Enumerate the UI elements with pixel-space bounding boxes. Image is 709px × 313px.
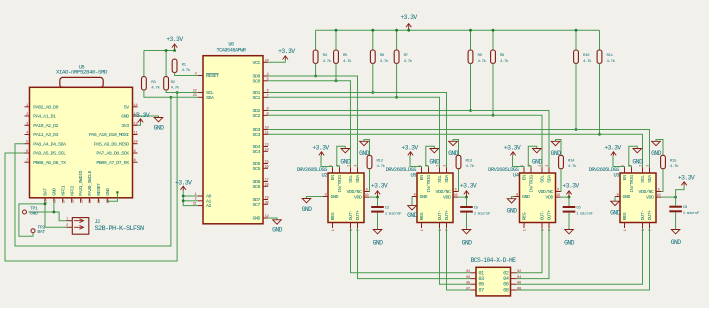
- haptic driver U3 DRV2605LDGS: [589, 167, 656, 222]
- svg-text:PA30_SWCLK: PA30_SWCLK: [87, 170, 93, 195]
- node BAT junction: [44, 203, 47, 206]
- U5 right pins VDD/NC VDD: [436, 188, 458, 200]
- svg-text:PA6_A10_D10_MOSI: PA6_A10_D10_MOSI: [89, 132, 129, 138]
- svg-text:4.7k: 4.7k: [377, 164, 386, 169]
- test point TP1 GND: [23, 206, 38, 217]
- svg-text:GND: GND: [105, 188, 111, 196]
- +3.3V at VDD: [460, 182, 477, 197]
- wire U4 EN to +3.3V: [513, 156, 525, 168]
- wire R6 to bus line: [372, 63, 374, 92]
- U6 left pin 22 SCL: [193, 89, 214, 96]
- svg-text:OUT+: OUT+: [444, 210, 450, 220]
- I2C multiplexer U6 TCA9548APWR: [203, 42, 263, 224]
- svg-text:R13: R13: [466, 160, 473, 164]
- svg-text:3: 3: [355, 165, 359, 167]
- svg-text:SC6: SC6: [253, 184, 261, 190]
- svg-text:4.7k: 4.7k: [670, 164, 679, 169]
- node rail-R5 junction: [335, 29, 338, 32]
- svg-text:1 microF: 1 microF: [576, 211, 593, 216]
- ground at U5 GND: [407, 206, 418, 220]
- wire U5 GND pin to ground: [411, 197, 413, 206]
- ground at U6 GND: [272, 220, 283, 234]
- node A1 junction: [182, 199, 185, 202]
- resistor R4: [313, 50, 332, 64]
- svg-text:GND: GND: [651, 150, 662, 157]
- svg-text:10: 10: [556, 194, 560, 198]
- svg-text:GND: GND: [52, 188, 58, 196]
- wire U5 OUT- to connector pin 05: [440, 228, 471, 284]
- svg-text:REG: REG: [622, 212, 628, 220]
- svg-text:SC0: SC0: [253, 78, 261, 84]
- svg-text:REG: REG: [522, 212, 528, 220]
- wire U3 OUT- to connector pin 06: [517, 228, 643, 284]
- wire U4 IN/TRIG to ground: [528, 146, 537, 167]
- capacitor C6: [563, 206, 594, 216]
- svg-text:OUT-: OUT-: [640, 210, 646, 220]
- wire +3.3V to R1 R2 R3: [144, 50, 175, 52]
- svg-text:+3.3V: +3.3V: [604, 145, 621, 152]
- wire rail to R6: [372, 30, 374, 50]
- U3 bottom pins REG OUT- OUT+: [622, 210, 653, 231]
- wire R14 to U4 VDD/NC: [560, 169, 563, 192]
- resistor R7: [394, 50, 413, 64]
- U4 bottom pins REG OUT- OUT+: [522, 210, 553, 231]
- svg-text:OUT-: OUT-: [348, 210, 354, 220]
- +3.3V at U6 A0-A2: [175, 180, 192, 191]
- svg-text:08: 08: [503, 288, 509, 294]
- svg-text:PA9_A5_D5_SCL: PA9_A5_D5_SCL: [33, 151, 66, 157]
- wire R5 to bus line: [335, 63, 337, 80]
- U6 left pin 3 RESET: [195, 72, 219, 79]
- +3.3V at U6 VCC: [278, 48, 295, 60]
- svg-text:OUT-: OUT-: [540, 210, 546, 220]
- wire R7 to bus line: [396, 63, 398, 97]
- wire R15 to U3 VDD/NC: [661, 169, 663, 192]
- wire U2 OUT+ to connector pin 03: [358, 228, 471, 279]
- svg-text:3: 3: [546, 165, 550, 167]
- node R7 bottom junction: [395, 96, 398, 99]
- +3.3V at U5 EN: [401, 145, 418, 156]
- U5 top pins EN IN/TRIG SCL SDA: [419, 165, 451, 193]
- node SCL junction: [176, 91, 179, 94]
- svg-text:VDD: VDD: [443, 195, 451, 201]
- U4 left pin 8 GND: [515, 193, 530, 200]
- wire R12 to U2 VDD/NC: [368, 169, 371, 192]
- ground at U3 IN/TRIG: [632, 149, 643, 166]
- svg-text:SDA: SDA: [355, 175, 361, 183]
- ground at U5 IN/TRIG: [429, 149, 440, 166]
- wire U3 OUT+ to connector pin 08: [517, 228, 650, 290]
- node VDD junction: [674, 196, 677, 199]
- ground above R15: [651, 141, 662, 157]
- svg-text:3V3: 3V3: [121, 123, 129, 129]
- node R6 bottom junction: [371, 91, 374, 94]
- U5 bottom pins REG OUT- OUT+: [419, 210, 450, 231]
- resistor R11: [597, 50, 616, 64]
- svg-text:IN/TRIG: IN/TRIG: [529, 175, 535, 193]
- wire VDD to +3.3V and capacitor C2: [369, 196, 378, 198]
- +3.3V at U3 EN: [604, 145, 621, 156]
- +3.3V feed of top rail: [400, 14, 417, 30]
- svg-text:1: 1: [332, 229, 336, 231]
- svg-text:U3: U3: [613, 173, 619, 179]
- U2 top pins EN IN/TRIG SCL SDA: [330, 165, 362, 193]
- svg-text:17: 17: [265, 179, 269, 183]
- svg-text:IN/TRIG: IN/TRIG: [337, 175, 343, 193]
- wire U4 OUT- to connector pin 02: [517, 228, 543, 273]
- svg-text:+3.3V: +3.3V: [371, 182, 388, 189]
- ground below C6: [564, 230, 575, 247]
- wire rail to R11: [599, 30, 601, 50]
- wire U1 3V3 pin to +3.3V: [138, 122, 141, 125]
- node R11 bottom junction: [598, 133, 601, 136]
- connector BCS-104-X-D-HE: [471, 257, 517, 296]
- U6 address pins A0 A1 A2: [193, 193, 212, 209]
- svg-text:A2: A2: [206, 203, 211, 209]
- node rail-R7 junction: [395, 29, 398, 32]
- node rail-R9 junction: [492, 29, 495, 32]
- +3.3V at U1 3V3 pin: [133, 112, 150, 122]
- wire rail to R4: [315, 30, 317, 50]
- haptic driver U2 DRV2605LDGS: [297, 167, 364, 222]
- svg-text:S2B-PH-K-SLFSN: S2B-PH-K-SLFSN: [95, 225, 144, 233]
- resistor R8: [468, 50, 487, 64]
- svg-text:4.7k: 4.7k: [171, 85, 180, 90]
- svg-text:6: 6: [455, 188, 457, 192]
- wire SD1 to U5 SDA: [268, 93, 447, 168]
- svg-text:SDA: SDA: [647, 175, 653, 183]
- svg-text:XIAO-nRF52840-SMD: XIAO-nRF52840-SMD: [56, 68, 108, 75]
- svg-text:3: 3: [444, 165, 448, 167]
- svg-text:EN: EN: [622, 175, 628, 180]
- U2 left pin 8 GND: [323, 193, 338, 200]
- ground above R14: [551, 141, 562, 157]
- svg-text:4.7k: 4.7k: [568, 164, 577, 169]
- capacitor C5: [460, 206, 491, 216]
- U3 top pins EN IN/TRIG SCL SDA: [622, 165, 654, 193]
- resistor R1: [172, 59, 191, 73]
- svg-text:10: 10: [454, 194, 458, 198]
- node GND junction: [53, 211, 56, 214]
- svg-text:IN/TRIG: IN/TRIG: [629, 175, 635, 193]
- capacitor C8: [669, 206, 700, 216]
- svg-text:U2: U2: [321, 173, 327, 179]
- svg-text:GND: GND: [429, 159, 440, 166]
- svg-text:GND: GND: [462, 240, 473, 247]
- svg-text:+3.3V: +3.3V: [278, 48, 295, 55]
- wire U4 OUT+ to connector pin 04: [517, 228, 550, 279]
- svg-text:4.7k: 4.7k: [151, 85, 160, 90]
- +3.3V at U4 EN: [504, 145, 521, 156]
- svg-text:VDD/NC: VDD/NC: [538, 189, 553, 195]
- ground below C5: [462, 230, 473, 247]
- BCS-104 pins: [466, 270, 522, 293]
- wire R8 to bus line: [470, 63, 472, 110]
- svg-text:VDD: VDD: [646, 195, 654, 201]
- svg-text:EN: EN: [522, 175, 528, 180]
- resistor R5: [334, 50, 353, 64]
- wire SD2 to U4 SDA: [268, 111, 549, 168]
- svg-text:07: 07: [466, 287, 470, 291]
- svg-text:NFC1: NFC1: [60, 185, 66, 195]
- svg-text:GND: GND: [564, 240, 575, 247]
- svg-text:SC3: SC3: [253, 132, 261, 138]
- svg-text:SC2: SC2: [253, 113, 261, 119]
- resistor R3: [142, 77, 161, 91]
- svg-text:SC5: SC5: [253, 166, 261, 172]
- wire rail to R8: [470, 30, 472, 50]
- wire VDD to +3.3V and capacitor C5: [458, 196, 467, 198]
- resistor R14: [559, 155, 578, 169]
- svg-text:GND: GND: [671, 239, 682, 246]
- svg-text:1 microF: 1 microF: [385, 211, 402, 216]
- U6 left pin 23 SDA: [193, 94, 214, 101]
- svg-text:VCC: VCC: [253, 60, 261, 66]
- svg-text:07: 07: [479, 288, 485, 294]
- U2 right pins VDD/NC VDD: [347, 188, 369, 200]
- svg-text:EN: EN: [330, 175, 336, 180]
- haptic driver U5 DRV2605LDGS: [386, 167, 453, 222]
- svg-text:GND: GND: [373, 240, 384, 247]
- +3.3V at VDD: [678, 175, 695, 186]
- svg-text:+3.3V: +3.3V: [678, 175, 695, 182]
- svg-text:R10: R10: [583, 54, 590, 58]
- svg-text:GND: GND: [507, 207, 518, 214]
- svg-text:SC7: SC7: [253, 202, 261, 208]
- svg-text:SC4: SC4: [253, 149, 261, 155]
- wire SDA line R3 to U6: [144, 90, 198, 97]
- U4 right pins VDD/NC VDD: [538, 188, 560, 200]
- svg-text:GND: GND: [272, 227, 283, 234]
- svg-text:IN/TRIG: IN/TRIG: [426, 175, 432, 193]
- wire R14 top to ground: [556, 140, 562, 156]
- svg-text:+3.3V: +3.3V: [312, 145, 329, 152]
- svg-text:4.7k: 4.7k: [323, 59, 332, 64]
- svg-text:PA8_A4_D4_SDA: PA8_A4_D4_SDA: [33, 141, 66, 147]
- svg-text:6: 6: [366, 188, 368, 192]
- svg-text:REG: REG: [330, 212, 336, 220]
- wire +3.3V top rail: [316, 29, 600, 31]
- wire R9 to bus line: [492, 63, 494, 115]
- U3 left pin 8 GND: [615, 193, 630, 200]
- svg-text:RESET: RESET: [206, 73, 219, 79]
- svg-text:4.7k: 4.7k: [466, 164, 475, 169]
- wire R13 top to ground: [453, 140, 459, 156]
- node rail-R6 junction: [371, 29, 374, 32]
- +3.3V above R1: [166, 36, 183, 51]
- node rail-R10 junction: [575, 29, 578, 32]
- svg-text:1: 1: [624, 229, 628, 231]
- wire SD3 to U3 SDA: [268, 130, 650, 168]
- wire SCL line R2 to U6: [166, 90, 198, 93]
- svg-text:+3.3V: +3.3V: [562, 182, 579, 189]
- svg-text:PA11_A3_D3: PA11_A3_D3: [33, 132, 58, 138]
- wire U3 EN to +3.3V: [613, 156, 625, 168]
- capacitor C2: [371, 206, 402, 216]
- wire U3 GND pin to ground: [614, 197, 616, 202]
- wire R13 to U5 VDD/NC: [457, 169, 460, 192]
- svg-text:4.7k: 4.7k: [404, 59, 413, 64]
- svg-text:SDA: SDA: [444, 175, 450, 183]
- svg-text:8: 8: [414, 193, 416, 197]
- svg-text:7: 7: [26, 159, 28, 163]
- node R10 bottom junction: [575, 128, 578, 131]
- node R1 top junction: [173, 49, 176, 52]
- svg-text:GND: GND: [522, 194, 530, 200]
- resistor R6: [370, 50, 389, 64]
- svg-text:GND: GND: [302, 206, 313, 213]
- ground above R13: [448, 141, 459, 157]
- svg-text:GND: GND: [532, 159, 543, 166]
- U1 right pins 14-8: [89, 104, 139, 166]
- U1 left pins 1-7: [25, 104, 67, 166]
- svg-text:PA5_A9_D9_MISO: PA5_A9_D9_MISO: [94, 141, 129, 147]
- wire U2 GND pin to ground: [307, 197, 324, 199]
- U4 top pins EN IN/TRIG SCL SDA: [521, 165, 553, 193]
- ground above R12: [359, 141, 370, 157]
- svg-text:PB09_A7_D7_RX: PB09_A7_D7_RX: [96, 160, 129, 166]
- svg-text:PA31_SWDIO: PA31_SWDIO: [78, 170, 84, 195]
- svg-text:SDA: SDA: [547, 175, 553, 183]
- U1 bottom pins 15-22: [43, 170, 111, 203]
- svg-text:17: 17: [63, 199, 67, 203]
- svg-text:OUT+: OUT+: [647, 210, 653, 220]
- wire U6 GND pin to ground: [268, 218, 277, 220]
- +3.3V at VDD: [562, 182, 579, 197]
- svg-text:GND: GND: [407, 212, 418, 219]
- test point TP2 BAT: [31, 224, 45, 235]
- wire rail to R7: [396, 30, 398, 50]
- resistor R9: [491, 50, 510, 64]
- svg-text:R14: R14: [568, 160, 575, 164]
- node rail feed junction: [407, 29, 410, 32]
- svg-text:+3.3V: +3.3V: [504, 145, 521, 152]
- wire R11 to bus line: [599, 63, 601, 134]
- wire GND net from U1 pin16: [53, 201, 55, 212]
- wire R12 top to ground: [364, 140, 370, 156]
- svg-text:+3.3V: +3.3V: [460, 182, 477, 189]
- node A0 junction: [182, 195, 185, 198]
- svg-text:BCS-104-X-D-HE: BCS-104-X-D-HE: [471, 257, 517, 264]
- connector J2 S2B-PH-K-SLFSN: [66, 217, 144, 234]
- resistor R12: [367, 155, 386, 169]
- svg-text:GND: GND: [632, 159, 643, 166]
- svg-text:+3.3V: +3.3V: [133, 112, 150, 119]
- wire VDD to +3.3V and capacitor C8: [661, 196, 676, 198]
- svg-text:OUT-: OUT-: [437, 210, 443, 220]
- wire U5 IN/TRIG to ground: [426, 146, 435, 167]
- ground below C8: [671, 230, 682, 247]
- svg-text:VDD: VDD: [354, 195, 362, 201]
- node R5 bottom junction: [335, 79, 338, 82]
- wire U2 IN/TRIG to ground: [337, 146, 346, 167]
- node R4 bottom junction: [314, 75, 317, 78]
- svg-text:GND: GND: [610, 209, 621, 216]
- svg-text:1: 1: [421, 229, 425, 231]
- svg-text:TCA9548APWR: TCA9548APWR: [217, 48, 246, 54]
- svg-text:GND: GND: [253, 216, 261, 222]
- svg-text:GND: GND: [121, 114, 129, 120]
- wire U3 IN/TRIG to ground: [629, 146, 638, 167]
- svg-text:PA02_A0_D0: PA02_A0_D0: [33, 104, 58, 110]
- resistor R13: [456, 155, 475, 169]
- svg-text:REG: REG: [419, 212, 425, 220]
- wire U2 EN to +3.3V: [321, 156, 333, 168]
- wire SDA from U1 pin5 via left loop: [15, 97, 171, 246]
- svg-text:8: 8: [325, 193, 327, 197]
- node R9 bottom junction: [492, 114, 495, 117]
- svg-text:6: 6: [557, 188, 559, 192]
- svg-text:4.7k: 4.7k: [478, 59, 487, 64]
- svg-text:+3.3V: +3.3V: [175, 180, 192, 187]
- svg-text:GND: GND: [623, 194, 631, 200]
- node rail-R8 junction: [469, 29, 472, 32]
- node VDD junction: [465, 196, 468, 199]
- svg-text:VDD/NC: VDD/NC: [347, 189, 362, 195]
- wire U2 OUT- to connector pin 01: [351, 228, 471, 273]
- U6 right pins: [253, 59, 270, 221]
- svg-text:4.7k: 4.7k: [343, 59, 352, 64]
- wire rail to R10: [575, 30, 577, 50]
- wire R10 to bus line: [575, 63, 577, 129]
- wire U5 OUT+ to connector pin 07: [447, 228, 471, 290]
- svg-text:+3.3V: +3.3V: [166, 36, 183, 43]
- wire R1 to U6 RESET pin: [175, 73, 198, 76]
- ground at U2 GND: [302, 199, 313, 214]
- U3 right pins VDD/NC VDD: [639, 188, 661, 200]
- node R8 bottom junction: [469, 109, 472, 112]
- haptic driver U4 DRV2605LDGS: [488, 167, 555, 222]
- svg-text:10: 10: [657, 194, 661, 198]
- svg-text:4.7k: 4.7k: [500, 59, 509, 64]
- svg-text:3: 3: [647, 165, 651, 167]
- svg-text:GND: GND: [30, 211, 38, 217]
- wire R4 to bus line: [315, 63, 317, 76]
- svg-text:SCL: SCL: [348, 175, 354, 183]
- svg-text:GND: GND: [154, 125, 165, 132]
- svg-text:BAT: BAT: [37, 229, 45, 235]
- wire rail to R5: [335, 30, 337, 50]
- svg-text:SDA: SDA: [206, 95, 214, 101]
- node R2 top junction: [165, 49, 168, 52]
- wire SCL from U1 pin6 via left loop: [5, 93, 177, 262]
- U2 bottom pins REG OUT- OUT+: [330, 210, 361, 231]
- resistor R15: [661, 155, 680, 169]
- svg-text:U5: U5: [410, 173, 416, 179]
- svg-text:PA10_A2_D2: PA10_A2_D2: [33, 123, 58, 129]
- MCU module U1 XIAO-nRF52840-SMD: [30, 64, 133, 198]
- svg-text:R11: R11: [607, 54, 614, 58]
- ground at U4 IN/TRIG: [532, 149, 543, 166]
- wire U5 EN to +3.3V: [410, 156, 422, 168]
- +3.3V at VDD: [371, 182, 388, 197]
- svg-text:4.7k: 4.7k: [380, 59, 389, 64]
- ground at U2 IN/TRIG: [340, 149, 351, 166]
- svg-text:GND: GND: [420, 194, 428, 200]
- svg-text:VDD/NC: VDD/NC: [436, 189, 451, 195]
- svg-text:VDD/NC: VDD/NC: [639, 189, 654, 195]
- svg-text:+3.3V: +3.3V: [400, 14, 417, 21]
- wire SD0 to U2 SDA: [268, 76, 358, 168]
- svg-text:PB08_A6_D6_TX: PB08_A6_D6_TX: [33, 160, 66, 166]
- svg-text:8: 8: [516, 193, 518, 197]
- svg-text:VDD: VDD: [546, 195, 554, 201]
- svg-text:BAT: BAT: [43, 188, 49, 196]
- svg-text:8: 8: [617, 193, 619, 197]
- svg-text:4.7k: 4.7k: [583, 59, 592, 64]
- wire VDD to +3.3V and capacitor C6: [561, 196, 570, 198]
- wire R15 top to ground: [656, 140, 663, 156]
